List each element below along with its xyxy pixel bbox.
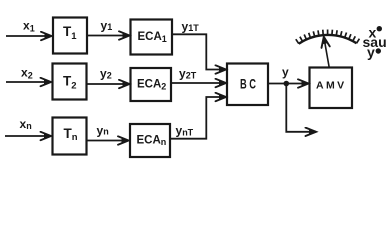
svg-text:ECA2: ECA2 <box>137 79 166 92</box>
box ECAn <box>130 124 170 157</box>
box T2 <box>53 64 87 100</box>
meter scale arc <box>299 35 357 44</box>
wire y : BC to AMV <box>268 83 309 85</box>
svg-text:x2: x2 <box>21 66 33 81</box>
svg-text:AMV: AMV <box>316 80 347 92</box>
svg-text:xn: xn <box>20 117 32 131</box>
svg-text:y2T: y2T <box>179 67 197 81</box>
wire y2T : ECA2 to BC middle input <box>171 82 226 84</box>
box T1 <box>53 18 87 54</box>
junction dot <box>284 81 290 87</box>
asterisk of y* <box>376 48 381 53</box>
wire ynT : ECAn to BC bottom input <box>170 97 226 139</box>
svg-text:B C: B C <box>240 76 256 91</box>
meter scale ticks <box>296 30 360 44</box>
svg-text:ynT: ynT <box>176 124 194 138</box>
wire x2 input <box>6 81 51 83</box>
wire y1T : ECA1 to BC top input <box>172 34 226 69</box>
wire xn input <box>5 135 51 137</box>
svg-text:y: y <box>367 44 375 60</box>
svg-text:yn: yn <box>97 123 109 137</box>
box ECA1 <box>131 20 173 55</box>
svg-text:T1: T1 <box>63 24 77 42</box>
svg-text:y2: y2 <box>100 66 112 80</box>
wire x1 input <box>6 35 52 37</box>
box BC <box>227 64 268 106</box>
box AMV <box>310 68 353 109</box>
box ECA2 <box>131 68 172 101</box>
wire y1 <box>87 35 130 37</box>
svg-text:y1T: y1T <box>182 19 200 33</box>
svg-text:y: y <box>282 65 289 79</box>
wire y2 <box>87 83 130 85</box>
wire branch down from junction <box>286 84 316 132</box>
meter needle <box>324 37 330 68</box>
wire yn <box>87 140 129 142</box>
box Tn <box>53 118 87 155</box>
svg-text:x1: x1 <box>23 19 35 34</box>
svg-text:T2: T2 <box>63 74 77 92</box>
svg-text:y1: y1 <box>101 19 113 33</box>
svg-text:Tn: Tn <box>64 126 78 143</box>
svg-text:ECA1: ECA1 <box>138 31 167 44</box>
svg-text:ECAn: ECAn <box>137 135 167 148</box>
asterisk of x* <box>377 26 382 31</box>
